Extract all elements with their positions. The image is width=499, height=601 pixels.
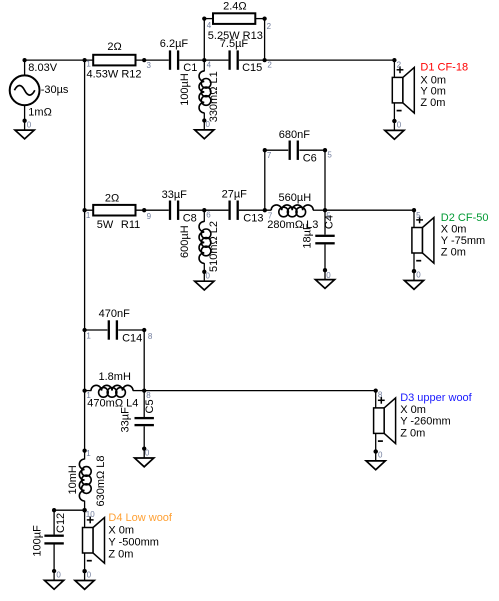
ground L1 xyxy=(195,118,214,138)
node L8 top xyxy=(82,448,86,452)
wire L1 top xyxy=(203,60,205,71)
wire node8 vertical xyxy=(143,330,145,391)
resistor R12 xyxy=(93,55,135,66)
svg-text:C12: C12 xyxy=(55,513,67,533)
wire R13 left vertical xyxy=(203,19,205,61)
svg-text:C1: C1 xyxy=(183,62,197,74)
wire row1 R12 to C1 xyxy=(136,59,169,61)
svg-text:1: 1 xyxy=(86,331,91,340)
svg-text:1: 1 xyxy=(86,211,91,220)
wire row2 L3 to node5 xyxy=(313,209,325,211)
svg-text:1: 1 xyxy=(86,59,91,68)
svg-text:600µH: 600µH xyxy=(179,225,191,258)
capacitor C8 xyxy=(169,201,171,220)
wire L8 top lead xyxy=(84,451,86,460)
capacitor C12 xyxy=(44,535,63,537)
voltage source V1 xyxy=(10,75,40,105)
svg-text:100µH: 100µH xyxy=(179,73,191,106)
capacitor C1 xyxy=(169,50,171,69)
node 8 row4 xyxy=(142,388,146,392)
wire R13 left lead xyxy=(204,18,213,20)
svg-text:1.8mH: 1.8mH xyxy=(99,371,131,383)
svg-text:560µH: 560µH xyxy=(279,192,312,204)
wire row2 bus to R11 xyxy=(85,209,94,211)
node C6 pin 5 xyxy=(323,148,327,152)
wire main vertical bus xyxy=(84,60,86,451)
ground D3 xyxy=(366,449,385,469)
inductor L1 xyxy=(199,71,211,113)
svg-text:4: 4 xyxy=(207,21,212,30)
svg-text:D2 CF-50: D2 CF-50 xyxy=(441,212,489,224)
svg-text:510mΩ L2: 510mΩ L2 xyxy=(208,221,220,272)
svg-text:0: 0 xyxy=(378,451,383,460)
svg-text:C6: C6 xyxy=(303,153,317,165)
wire L2 top xyxy=(203,210,205,222)
ground C5 xyxy=(135,446,154,466)
wire C5 top xyxy=(143,391,145,417)
node 5 xyxy=(323,208,327,212)
ground C12 xyxy=(45,569,64,589)
svg-text:Z 0m: Z 0m xyxy=(420,97,445,109)
svg-text:6.2µF: 6.2µF xyxy=(160,38,189,50)
capacitor C13 xyxy=(228,201,230,220)
svg-text:Y -260mm: Y -260mm xyxy=(400,416,451,428)
node 6 xyxy=(202,208,206,212)
svg-text:C15: C15 xyxy=(242,62,262,74)
svg-text:8: 8 xyxy=(146,391,151,400)
svg-text:C5: C5 xyxy=(144,399,156,413)
node C12 top xyxy=(52,508,56,512)
svg-text:0: 0 xyxy=(27,120,32,129)
node 3 xyxy=(142,58,146,62)
svg-text:1mΩ: 1mΩ xyxy=(28,107,52,119)
speaker D1 xyxy=(392,58,414,123)
wire row2 node5 to D2 xyxy=(325,209,414,211)
svg-text:330mΩ L1: 330mΩ L1 xyxy=(208,71,220,122)
wire C6 right vertical xyxy=(324,150,326,210)
svg-text:2: 2 xyxy=(267,61,272,70)
svg-text:X 0m: X 0m xyxy=(108,525,134,537)
svg-text:630mΩ L8: 630mΩ L8 xyxy=(95,455,107,506)
wire C6 left vertical xyxy=(264,150,266,210)
svg-text:2.4Ω: 2.4Ω xyxy=(223,0,247,12)
svg-text:0: 0 xyxy=(326,271,331,280)
wire row5 node10 to C12 xyxy=(54,509,85,511)
capacitor C14 xyxy=(108,320,110,339)
svg-text:Y 0m: Y 0m xyxy=(420,86,445,98)
inductor L8 xyxy=(79,459,91,501)
wire C4 bottom xyxy=(324,245,326,271)
svg-text:2Ω: 2Ω xyxy=(105,193,119,205)
node 8 top xyxy=(142,328,146,332)
capacitor C6 xyxy=(289,141,291,160)
ground C4 xyxy=(315,268,334,288)
svg-text:10mH: 10mH xyxy=(67,465,79,494)
svg-text:33µF: 33µF xyxy=(162,189,188,201)
svg-text:0: 0 xyxy=(206,271,211,280)
svg-text:C8: C8 xyxy=(183,213,197,225)
node 4 xyxy=(202,58,206,62)
node 2 xyxy=(262,58,266,62)
svg-text:0: 0 xyxy=(397,120,402,129)
svg-text:6: 6 xyxy=(206,211,211,220)
svg-text:X 0m: X 0m xyxy=(400,404,426,416)
svg-text:27µF: 27µF xyxy=(222,189,248,201)
svg-text:3: 3 xyxy=(147,61,152,70)
inductor L4 xyxy=(91,385,133,397)
svg-text:Y -75mm: Y -75mm xyxy=(441,235,485,247)
svg-text:2: 2 xyxy=(397,61,402,70)
node 1 junction row4 xyxy=(82,388,86,392)
svg-text:470nF: 470nF xyxy=(99,308,130,320)
svg-text:5W: 5W xyxy=(97,219,114,231)
capacitor C15 xyxy=(228,50,230,69)
wire source top xyxy=(24,60,26,75)
wire source bottom xyxy=(24,105,26,121)
wire row4 bus to L4 xyxy=(85,390,92,392)
svg-text:0: 0 xyxy=(145,448,150,457)
svg-text:D1 CF-18: D1 CF-18 xyxy=(420,62,468,74)
wire row4 node8 to D3 xyxy=(144,390,376,392)
svg-text:2: 2 xyxy=(267,22,272,31)
inductor L2 xyxy=(199,221,211,263)
ground L2 xyxy=(195,270,214,290)
svg-text:Z 0m: Z 0m xyxy=(400,427,425,439)
svg-text:-30µs: -30µs xyxy=(41,84,69,96)
svg-text:9: 9 xyxy=(147,212,152,221)
svg-text:0: 0 xyxy=(206,120,211,129)
node 1 junction row3 xyxy=(82,328,86,332)
node 1 junction row1 xyxy=(82,58,86,62)
svg-text:D3 upper woof: D3 upper woof xyxy=(400,392,472,404)
svg-text:8: 8 xyxy=(148,332,153,341)
inductor L3 xyxy=(271,205,313,217)
svg-text:33µF: 33µF xyxy=(119,407,131,433)
svg-text:7: 7 xyxy=(267,151,272,160)
svg-text:5: 5 xyxy=(416,211,421,220)
svg-text:Y -500mm: Y -500mm xyxy=(108,536,159,548)
svg-text:C14: C14 xyxy=(122,333,142,345)
svg-text:0: 0 xyxy=(87,570,92,579)
wire row1 C15 to D1 xyxy=(239,59,395,61)
wire C6 left lead xyxy=(265,149,288,151)
capacitor C4 xyxy=(315,235,334,237)
ground source xyxy=(15,119,34,139)
ground D4 xyxy=(75,569,94,589)
wire row1 source to R12 xyxy=(25,59,94,61)
wire row2 C8 to C13 xyxy=(179,209,228,211)
svg-text:D4 Low woof: D4 Low woof xyxy=(108,512,173,524)
svg-text:4.53W R12: 4.53W R12 xyxy=(87,69,142,81)
svg-text:680nF: 680nF xyxy=(279,129,310,141)
node 10 xyxy=(82,508,86,512)
speaker D2 xyxy=(412,208,434,273)
node R13 pin 4 xyxy=(202,16,206,20)
svg-text:1: 1 xyxy=(86,449,91,458)
wire L8 bottom lead xyxy=(84,501,86,511)
svg-text:Z 0m: Z 0m xyxy=(108,549,133,561)
svg-text:2Ω: 2Ω xyxy=(107,41,121,53)
wire L1 bottom xyxy=(203,113,205,121)
speaker D4 xyxy=(82,508,104,573)
svg-text:R11: R11 xyxy=(121,219,140,231)
wire C12 top xyxy=(53,510,55,534)
svg-text:X 0m: X 0m xyxy=(441,224,467,236)
speaker D3 xyxy=(374,388,396,453)
wire L2 bottom xyxy=(203,263,205,272)
svg-text:7.5µF: 7.5µF xyxy=(220,38,249,50)
node C6 pin 7 xyxy=(263,148,267,152)
node 7 xyxy=(263,208,267,212)
wire R13 right vertical xyxy=(264,19,266,61)
wire row4 L4 to node8 xyxy=(133,390,144,392)
wire C4 top xyxy=(324,210,326,234)
svg-text:X 0m: X 0m xyxy=(420,74,446,86)
wire row2 C13 to node7 xyxy=(239,209,271,211)
svg-text:C13: C13 xyxy=(243,212,263,224)
svg-text:4: 4 xyxy=(207,61,212,70)
resistor R13 xyxy=(213,13,255,24)
svg-text:18µF: 18µF xyxy=(302,223,314,249)
wire R13 right lead xyxy=(255,18,264,20)
resistor R11 xyxy=(93,205,135,216)
node 1 junction row2 xyxy=(82,208,86,212)
node V1 top xyxy=(22,58,26,62)
svg-text:8.03V: 8.03V xyxy=(28,62,57,74)
svg-text:C4: C4 xyxy=(323,215,335,229)
svg-text:0: 0 xyxy=(56,570,61,579)
wire C5 bottom xyxy=(143,426,145,448)
svg-text:Z 0m: Z 0m xyxy=(441,247,466,259)
svg-text:100µF: 100µF xyxy=(32,525,44,557)
wire row2 R11 to C8 xyxy=(136,209,169,211)
wire C6 right lead xyxy=(299,149,325,151)
node R13 pin 2 xyxy=(262,16,266,20)
ground D2 xyxy=(404,269,423,289)
ground D1 xyxy=(385,119,404,139)
wire row3 bus to C14 xyxy=(85,329,108,331)
svg-text:8: 8 xyxy=(378,391,383,400)
wire row1 C1 to node4 xyxy=(179,59,228,61)
wire C12 bottom xyxy=(53,545,55,572)
svg-text:5: 5 xyxy=(327,150,332,159)
wire row3 C14 to node8 xyxy=(118,329,144,331)
svg-text:0: 0 xyxy=(416,271,421,280)
node 9 xyxy=(142,208,146,212)
capacitor C5 xyxy=(135,417,154,419)
